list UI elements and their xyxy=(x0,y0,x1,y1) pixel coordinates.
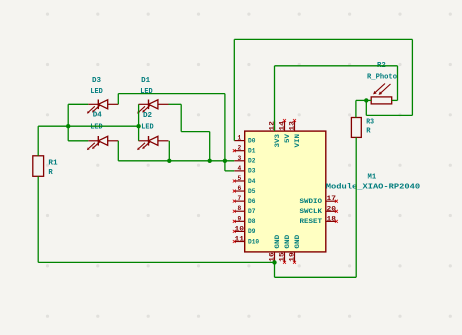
svg-text:D1: D1 xyxy=(141,77,151,85)
svg-text:D4: D4 xyxy=(93,112,103,120)
svg-text:11: 11 xyxy=(235,236,245,243)
svg-text:3: 3 xyxy=(237,155,241,162)
svg-text:RESET: RESET xyxy=(300,218,323,225)
svg-text:R_Photo: R_Photo xyxy=(367,73,397,81)
svg-text:9: 9 xyxy=(237,215,241,222)
svg-text:6: 6 xyxy=(237,185,241,192)
svg-text:D7: D7 xyxy=(248,208,256,215)
svg-text:VIN: VIN xyxy=(294,134,301,148)
svg-text:13: 13 xyxy=(289,121,296,131)
svg-text:10: 10 xyxy=(235,225,245,232)
svg-text:SWCLK: SWCLK xyxy=(300,208,323,215)
svg-text:SWDIO: SWDIO xyxy=(300,198,323,205)
svg-text:8: 8 xyxy=(237,205,241,212)
svg-text:4: 4 xyxy=(237,165,241,172)
svg-text:14: 14 xyxy=(279,121,286,131)
svg-text:D0: D0 xyxy=(248,137,256,144)
svg-text:D6: D6 xyxy=(248,198,256,205)
svg-text:D2: D2 xyxy=(248,158,256,165)
svg-text:17: 17 xyxy=(327,195,337,202)
svg-text:M1: M1 xyxy=(368,174,377,182)
svg-text:LED: LED xyxy=(140,88,153,96)
svg-text:7: 7 xyxy=(237,195,241,202)
svg-text:1: 1 xyxy=(237,135,241,142)
svg-text:R: R xyxy=(48,169,53,177)
svg-text:18: 18 xyxy=(327,215,337,222)
svg-text:GND: GND xyxy=(284,234,291,248)
svg-text:2: 2 xyxy=(237,145,241,152)
svg-text:D3: D3 xyxy=(92,77,101,85)
svg-text:D8: D8 xyxy=(248,218,256,225)
svg-text:D1: D1 xyxy=(248,147,256,154)
svg-text:R3: R3 xyxy=(366,118,374,126)
svg-text:D9: D9 xyxy=(248,228,256,235)
svg-text:LED: LED xyxy=(90,88,103,96)
svg-text:GND: GND xyxy=(294,234,301,248)
svg-text:R: R xyxy=(366,127,371,135)
svg-text:20: 20 xyxy=(327,205,337,212)
svg-text:D2: D2 xyxy=(143,112,152,120)
svg-text:3V3: 3V3 xyxy=(274,134,281,148)
svg-text:D3: D3 xyxy=(248,168,256,175)
svg-text:LED: LED xyxy=(90,123,103,131)
svg-text:D10: D10 xyxy=(248,238,259,245)
svg-text:15: 15 xyxy=(279,252,286,262)
svg-text:D4: D4 xyxy=(248,178,256,185)
svg-text:D5: D5 xyxy=(248,188,256,195)
svg-text:LED: LED xyxy=(141,123,154,131)
svg-text:GND: GND xyxy=(274,234,281,248)
svg-text:R1: R1 xyxy=(48,160,58,168)
svg-text:5V: 5V xyxy=(284,134,291,143)
svg-text:19: 19 xyxy=(289,252,296,262)
svg-text:5: 5 xyxy=(237,175,241,182)
svg-text:Module_XIAO-RP2040: Module_XIAO-RP2040 xyxy=(326,184,421,192)
